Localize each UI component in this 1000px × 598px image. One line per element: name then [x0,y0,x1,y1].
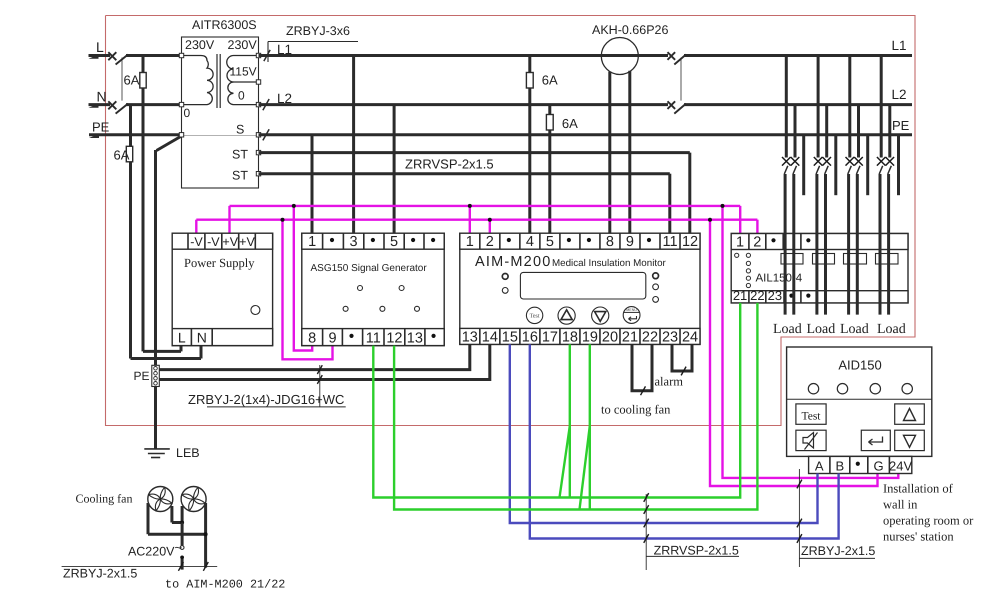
svg-text:5: 5 [390,234,398,250]
svg-text:Test: Test [530,314,540,320]
svg-text:Load: Load [773,322,802,337]
svg-text:8: 8 [308,331,316,347]
svg-text:Cooling fan: Cooling fan [76,492,133,506]
svg-text:operating room or: operating room or [883,514,974,528]
svg-text:6A: 6A [124,73,140,88]
svg-text:~: ~ [175,540,183,555]
svg-text:AC220V: AC220V [128,545,175,559]
svg-text:B: B [836,459,845,474]
svg-text:L2: L2 [277,91,292,106]
svg-text:S: S [236,123,244,137]
svg-text:Load: Load [877,322,906,337]
svg-text:22: 22 [642,329,658,345]
svg-text:AID150: AID150 [838,358,881,373]
svg-text:LEB: LEB [176,446,200,460]
svg-text:3: 3 [350,234,358,250]
svg-text:13: 13 [462,329,478,345]
svg-text:wall in: wall in [883,498,918,512]
svg-text:ZRRVSP-2x1.5: ZRRVSP-2x1.5 [654,544,739,558]
svg-text:14: 14 [482,329,498,345]
svg-text:ASG150 Signal Generator: ASG150 Signal Generator [311,263,428,274]
svg-text:9: 9 [626,234,634,250]
svg-text:4: 4 [526,234,534,250]
svg-text:A: A [815,459,824,474]
svg-text:L1: L1 [277,42,292,57]
svg-text:ST: ST [232,148,248,162]
svg-text:L: L [96,39,104,55]
svg-text:1: 1 [736,235,744,251]
svg-text:Medical Insulation Monitor: Medical Insulation Monitor [552,258,667,269]
svg-text:N: N [197,330,207,346]
svg-text:ZRBYJ-2(1x4)-JDG16+WC: ZRBYJ-2(1x4)-JDG16+WC [188,392,344,407]
svg-text:-V: -V [190,235,203,249]
svg-text:-V: -V [207,235,220,249]
svg-text:ZRRVSP-2x1.5: ZRRVSP-2x1.5 [405,157,494,172]
svg-text:15: 15 [502,329,518,345]
svg-text:nurses' station: nurses' station [883,530,954,544]
svg-text:2: 2 [486,234,494,250]
svg-text:21: 21 [622,329,638,345]
svg-text:19: 19 [582,329,598,345]
svg-text:16: 16 [522,329,538,345]
svg-text:17: 17 [542,329,558,345]
svg-text:ZRBYJ-3x6: ZRBYJ-3x6 [286,24,350,38]
svg-text:L: L [178,330,186,346]
svg-text:PE: PE [892,118,910,133]
svg-text:G: G [874,459,884,474]
svg-text:Power Supply: Power Supply [184,256,255,270]
svg-text:1: 1 [466,234,474,250]
svg-text:Load: Load [807,322,836,337]
svg-text:AKH-0.66P26: AKH-0.66P26 [592,23,668,37]
svg-text:AIL150-4: AIL150-4 [756,273,803,285]
svg-text:L1: L1 [892,38,907,53]
svg-text:to cooling fan: to cooling fan [601,403,671,417]
svg-text:0: 0 [238,89,245,103]
svg-text:Load: Load [840,322,869,337]
svg-text:230V: 230V [228,38,258,52]
svg-text:ST: ST [232,169,248,183]
svg-text:Installation of: Installation of [883,482,954,496]
svg-text:13: 13 [407,331,423,347]
svg-text:115V: 115V [230,65,257,79]
svg-text:N: N [97,89,107,105]
svg-text:6A: 6A [542,73,558,88]
svg-text:23: 23 [662,329,678,345]
svg-text:PE: PE [133,369,149,383]
svg-text:ZRBYJ-2x1.5: ZRBYJ-2x1.5 [801,544,875,558]
svg-text:24: 24 [682,329,698,345]
svg-text:230V: 230V [185,38,215,52]
svg-text:6A: 6A [562,116,578,131]
svg-text:20: 20 [602,329,618,345]
svg-text:24V: 24V [889,459,912,474]
svg-text:alarm: alarm [655,375,684,389]
svg-text:MENU: MENU [626,308,637,312]
svg-text:+V: +V [239,235,255,249]
svg-text:11: 11 [366,331,381,347]
svg-text:9: 9 [328,331,336,347]
svg-text:AIM-M200: AIM-M200 [475,254,551,270]
svg-text:23: 23 [768,288,782,303]
svg-text:12: 12 [386,331,402,347]
svg-text:12: 12 [682,234,698,250]
svg-text:21: 21 [733,288,747,303]
svg-text:PE: PE [92,120,110,135]
svg-text:22: 22 [750,288,764,303]
svg-text:5: 5 [546,234,554,250]
svg-text:to AIM-M200 21/22: to AIM-M200 21/22 [165,578,285,592]
svg-text:L2: L2 [892,87,907,102]
svg-text:0: 0 [184,106,191,120]
svg-text:+V: +V [222,235,238,249]
svg-text:8: 8 [606,234,614,250]
svg-text:2: 2 [753,235,761,251]
svg-text:1: 1 [308,234,316,250]
svg-text:6A: 6A [114,148,130,163]
svg-text:11: 11 [662,234,677,250]
svg-text:AITR6300S: AITR6300S [192,18,257,32]
svg-text:18: 18 [562,329,578,345]
svg-text:ZRBYJ-2x1.5: ZRBYJ-2x1.5 [63,567,137,581]
svg-text:Test: Test [802,411,822,423]
